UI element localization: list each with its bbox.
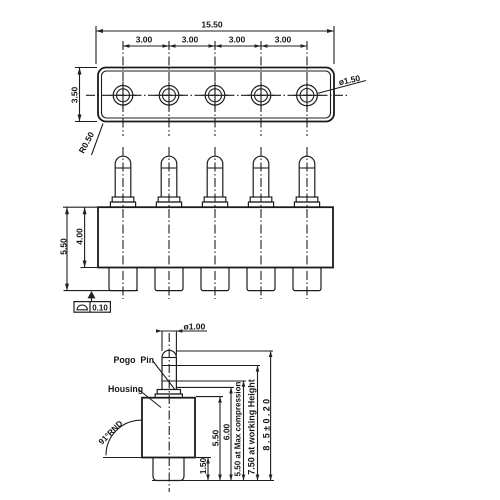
svg-text:Pogo Pin: Pogo Pin xyxy=(114,355,155,365)
svg-text:6.00: 6.00 xyxy=(222,423,232,440)
svg-text:8.5±0.20: 8.5±0.20 xyxy=(262,396,272,450)
svg-text:7.50 at working Height: 7.50 at working Height xyxy=(247,379,257,475)
svg-text:1.50: 1.50 xyxy=(198,457,208,474)
svg-text:Housing: Housing xyxy=(108,384,143,394)
svg-text:3.00: 3.00 xyxy=(136,35,153,45)
svg-text:3.00: 3.00 xyxy=(275,35,292,45)
svg-text:3.00: 3.00 xyxy=(182,35,199,45)
svg-text:ø1.00: ø1.00 xyxy=(184,322,206,332)
svg-text:15.50: 15.50 xyxy=(201,20,223,30)
svg-text:5.50 at Max compression: 5.50 at Max compression xyxy=(234,382,243,477)
svg-text:4.00: 4.00 xyxy=(75,228,85,245)
svg-text:3.50: 3.50 xyxy=(70,86,80,103)
svg-text:5.50: 5.50 xyxy=(59,238,69,255)
svg-text:0.10: 0.10 xyxy=(92,303,108,312)
svg-text:5.50: 5.50 xyxy=(211,429,221,446)
svg-text:3.00: 3.00 xyxy=(229,35,246,45)
